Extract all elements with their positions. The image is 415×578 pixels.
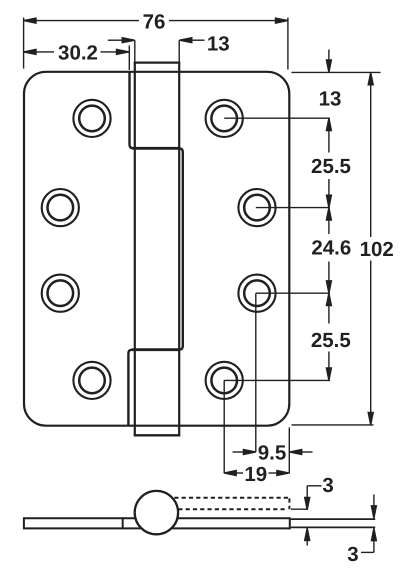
arrow down to top edge (13 chain) [328, 50, 330, 63]
svg-text:25.5: 25.5 [311, 329, 351, 352]
dimension 30.2 line [24, 51, 54, 53]
svg-text:76: 76 [143, 10, 166, 33]
side view open right leaf top line [291, 518, 375, 520]
arrow down to row4 leader [326, 368, 331, 380]
side view bottom line (left leaf + closed right leaf) [24, 527, 290, 529]
dimension 3 left elbow [307, 485, 321, 487]
hole right row1 [206, 100, 243, 137]
extension line bottom edge right [292, 424, 374, 426]
leader hole right row3 down [255, 293, 257, 452]
side view closed right leaf end cap [289, 517, 291, 529]
dimension 3 left up arrow [305, 528, 310, 540]
hole left row1 [73, 100, 110, 137]
hinge outline (front view rounded rectangle) [24, 72, 289, 426]
left leaf cut edge around knuckle [128, 71, 182, 426]
arrow down to row2 leader [326, 195, 331, 207]
knuckle divider 2 [132, 348, 180, 351]
knuckle bottom cap [134, 434, 181, 436]
dimension 3 right arrows [373, 495, 375, 507]
svg-text:102: 102 [360, 238, 394, 261]
side view left leaf right cap [122, 517, 124, 529]
arrow down to row3 leader [326, 281, 331, 293]
svg-text:24.6: 24.6 [311, 237, 351, 260]
svg-text:13: 13 [319, 87, 342, 110]
svg-text:9.5: 9.5 [258, 441, 287, 464]
knuckle tube left edge [134, 63, 136, 436]
side view knuckle circle [135, 491, 178, 534]
leader hole right row4 down [223, 380, 225, 473]
svg-text:13: 13 [207, 32, 230, 55]
dimension 102 line [368, 72, 373, 84]
hole right row4 [206, 362, 243, 399]
svg-text:3: 3 [347, 543, 358, 566]
knuckle divider 1 [133, 147, 180, 150]
extension line top edge right [292, 71, 381, 73]
side view open right leaf bottom line [291, 526, 375, 528]
arrow up from below row3 [326, 293, 331, 305]
svg-text:3: 3 [322, 474, 333, 497]
arrow up from below row2 [326, 208, 331, 220]
hole left row4 [73, 362, 110, 399]
leader hole right row3 [256, 292, 330, 294]
dimension 19 [224, 471, 236, 476]
dimension 13 top (knuckle width) [108, 39, 123, 41]
extension line right edge (76) [287, 18, 289, 70]
leader hole right row4 [224, 379, 330, 381]
side view dashed end connector [288, 498, 290, 509]
arrow up to row1 leader [326, 118, 331, 130]
solid extension of dashed lower line [291, 508, 308, 510]
leader hole right row2 [256, 207, 330, 209]
extension line 13 right [178, 40, 180, 62]
extension line 13 left [134, 40, 136, 62]
leader hole right row1 [224, 117, 330, 119]
dimension 9.5 [233, 451, 245, 453]
svg-text:30.2: 30.2 [58, 42, 98, 65]
dimension 76 line [24, 20, 139, 22]
side view dashed open leaf top [167, 497, 289, 499]
knuckle top cap [134, 61, 181, 63]
side view left leaf left cap [23, 517, 25, 529]
hole left row3 [42, 275, 79, 312]
svg-text:25.5: 25.5 [311, 155, 351, 178]
hole left row2 [42, 189, 79, 226]
svg-text:19: 19 [244, 463, 267, 486]
hole right row3 [238, 275, 275, 312]
extension line left edge (76) [23, 18, 25, 69]
side view dashed open leaf bottom [171, 508, 286, 510]
extension line 30.2 right [128, 46, 130, 71]
hole right row2 [238, 189, 275, 226]
knuckle tube right edge [178, 63, 180, 436]
side view top line (left leaf + closed right leaf) [24, 517, 290, 519]
extension right edge down [288, 428, 290, 474]
